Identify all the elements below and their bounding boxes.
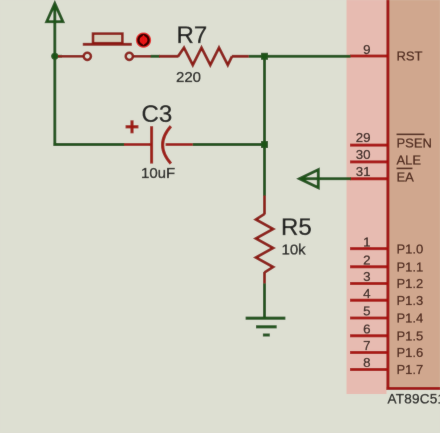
pin 30 ALE	[350, 147, 421, 168]
svg-text:10k: 10k	[282, 242, 307, 259]
power terminal VCC arrow	[47, 4, 63, 22]
svg-text:ALE: ALE	[397, 153, 422, 168]
svg-text:3: 3	[363, 269, 370, 284]
EA input terminal arrow	[300, 170, 319, 188]
pin 2 P1.1	[350, 252, 423, 274]
svg-text:2: 2	[363, 252, 370, 267]
svg-text:P1.0: P1.0	[397, 241, 424, 256]
svg-text:P1.5: P1.5	[397, 329, 424, 344]
svg-text:P1.7: P1.7	[397, 362, 424, 377]
push button (reset switch)	[58, 34, 151, 60]
resistor R7	[159, 48, 249, 65]
svg-text:P1.4: P1.4	[397, 311, 424, 326]
svg-text:P1.3: P1.3	[397, 293, 424, 308]
wire: C3 to RST column	[193, 143, 265, 146]
wire: button to R7	[151, 55, 160, 58]
svg-text:1: 1	[363, 234, 370, 249]
pin 6 P1.5	[350, 322, 423, 344]
svg-text:5: 5	[363, 304, 370, 319]
pin 5 P1.4	[350, 304, 423, 326]
pin 4 P1.3	[350, 286, 423, 308]
pin 31 EA	[350, 164, 414, 185]
pin 8 P1.7	[350, 355, 423, 377]
wire: R7 to RST pin	[249, 55, 351, 58]
ground	[246, 318, 286, 335]
svg-text:R5: R5	[281, 214, 312, 241]
svg-text:4: 4	[363, 286, 370, 301]
svg-text:P1.2: P1.2	[397, 276, 424, 291]
svg-text:220: 220	[176, 69, 201, 86]
capacitor C3	[124, 126, 193, 163]
svg-text:30: 30	[356, 147, 371, 162]
wire: R5 to ground	[263, 283, 266, 318]
button actuator (red)	[136, 33, 151, 48]
junction node capacitor branch	[261, 141, 268, 148]
svg-text:6: 6	[363, 322, 370, 337]
svg-text:R7: R7	[177, 22, 208, 49]
junction node RST column top	[261, 53, 268, 60]
pin 3 P1.2	[350, 269, 423, 291]
svg-text:EA: EA	[397, 170, 415, 185]
wire: junction to button left pin	[55, 55, 62, 58]
svg-text:31: 31	[356, 164, 371, 179]
svg-text:C3: C3	[142, 101, 173, 128]
svg-text:RST: RST	[397, 49, 423, 64]
svg-text:9: 9	[363, 42, 370, 57]
resistor R5	[256, 196, 273, 284]
svg-text:7: 7	[363, 338, 370, 353]
svg-text:P1.6: P1.6	[397, 345, 424, 360]
pin 29 PSEN	[350, 130, 432, 151]
svg-text:PSEN: PSEN	[397, 136, 432, 151]
svg-text:10uF: 10uF	[141, 165, 175, 182]
C3 polarity + mark	[126, 120, 139, 133]
IC U1 AT89C51 body	[386, 0, 440, 390]
wire: elbow to capacitor	[53, 143, 124, 146]
svg-text:29: 29	[356, 130, 371, 145]
svg-text:P1.1: P1.1	[397, 259, 424, 274]
pin 9 RST	[350, 42, 423, 64]
svg-text:AT89C51: AT89C51	[388, 392, 440, 407]
pin 7 P1.6	[350, 338, 423, 360]
wire: EA terminal to pin 31	[301, 177, 352, 180]
wire: vertical RST column	[263, 56, 266, 196]
IC U1 pin-area highlight band	[347, 0, 387, 394]
svg-text:8: 8	[363, 355, 370, 370]
wire: VCC down to capacitor row	[53, 4, 56, 146]
pin 1 P1.0	[350, 234, 423, 256]
junction at VCC / button row	[51, 53, 58, 60]
